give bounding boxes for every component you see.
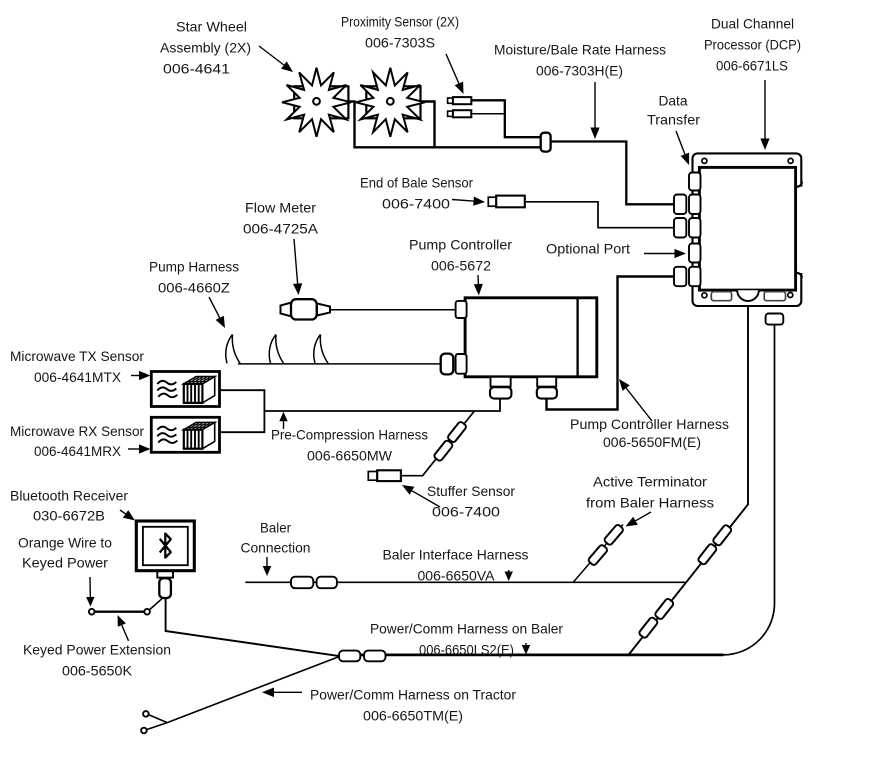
svg-text:006-7400: 006-7400 bbox=[432, 504, 500, 520]
svg-text:006-7303S: 006-7303S bbox=[365, 35, 435, 51]
svg-text:Baler: Baler bbox=[260, 520, 291, 536]
svg-text:Power/Comm Harness on Tractor: Power/Comm Harness on Tractor bbox=[310, 687, 516, 703]
svg-text:Pre-Compression Harness: Pre-Compression Harness bbox=[271, 427, 428, 443]
svg-text:Keyed Power Extension: Keyed Power Extension bbox=[23, 642, 171, 658]
svg-text:006-6650TM(E): 006-6650TM(E) bbox=[363, 708, 463, 724]
svg-text:from Baler Harness: from Baler Harness bbox=[586, 495, 714, 511]
svg-text:Baler Interface Harness: Baler Interface Harness bbox=[383, 547, 529, 563]
svg-text:Stuffer Sensor: Stuffer Sensor bbox=[427, 483, 515, 499]
svg-text:006-5650FM(E): 006-5650FM(E) bbox=[603, 434, 701, 450]
svg-text:Keyed Power: Keyed Power bbox=[22, 555, 108, 571]
svg-text:006-4725A: 006-4725A bbox=[243, 221, 319, 237]
svg-text:Dual Channel: Dual Channel bbox=[711, 16, 794, 32]
svg-text:Assembly (2X): Assembly (2X) bbox=[160, 40, 251, 56]
svg-text:Connection: Connection bbox=[241, 540, 311, 556]
svg-text:006-5672: 006-5672 bbox=[431, 258, 491, 274]
svg-text:Bluetooth Receiver: Bluetooth Receiver bbox=[10, 488, 128, 504]
svg-text:Moisture/Bale Rate Harness: Moisture/Bale Rate Harness bbox=[494, 42, 666, 58]
svg-text:Microwave RX Sensor: Microwave RX Sensor bbox=[10, 423, 144, 439]
svg-text:006-4641MRX: 006-4641MRX bbox=[34, 443, 122, 459]
svg-text:030-6672B: 030-6672B bbox=[33, 508, 105, 524]
svg-text:006-4641: 006-4641 bbox=[163, 61, 230, 77]
svg-text:Pump Harness: Pump Harness bbox=[149, 259, 239, 275]
svg-text:Transfer: Transfer bbox=[647, 112, 700, 128]
svg-text:Star Wheel: Star Wheel bbox=[176, 19, 247, 35]
svg-text:006-4660Z: 006-4660Z bbox=[158, 280, 230, 296]
svg-text:Optional Port: Optional Port bbox=[546, 241, 630, 257]
svg-text:Power/Comm Harness on Baler: Power/Comm Harness on Baler bbox=[370, 621, 563, 637]
svg-text:Active Terminator: Active Terminator bbox=[593, 474, 707, 490]
svg-text:Microwave TX Sensor: Microwave TX Sensor bbox=[10, 348, 144, 364]
svg-text:Flow Meter: Flow Meter bbox=[245, 200, 316, 216]
svg-text:Orange Wire to: Orange Wire to bbox=[18, 535, 112, 551]
svg-text:Data: Data bbox=[659, 93, 688, 109]
svg-text:006-5650K: 006-5650K bbox=[62, 663, 133, 679]
svg-text:006-6650VA: 006-6650VA bbox=[418, 568, 496, 584]
svg-text:006-6650MW: 006-6650MW bbox=[307, 448, 393, 464]
svg-text:Pump Controller: Pump Controller bbox=[409, 237, 512, 253]
svg-text:006-6650LS2(E): 006-6650LS2(E) bbox=[419, 642, 514, 658]
svg-text:End of Bale Sensor: End of Bale Sensor bbox=[360, 175, 473, 191]
svg-text:Processor (DCP): Processor (DCP) bbox=[704, 37, 801, 53]
svg-text:Proximity Sensor (2X): Proximity Sensor (2X) bbox=[341, 14, 459, 30]
svg-text:006-6671LS: 006-6671LS bbox=[716, 58, 788, 74]
svg-text:006-7303H(E): 006-7303H(E) bbox=[536, 63, 623, 79]
svg-text:006-7400: 006-7400 bbox=[382, 196, 450, 212]
svg-text:006-4641MTX: 006-4641MTX bbox=[34, 369, 122, 385]
